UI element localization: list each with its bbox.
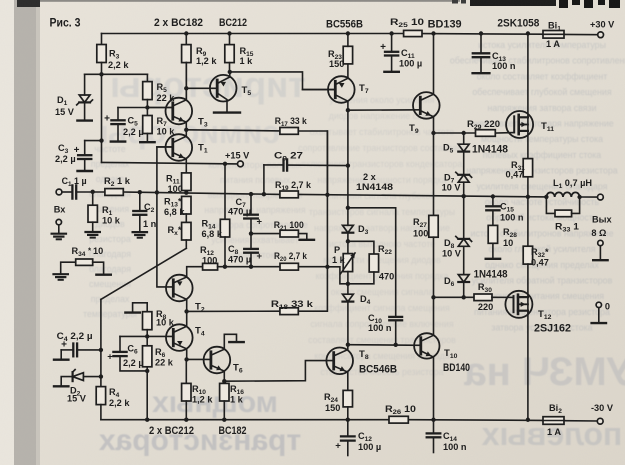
svg-text:УМЗЧ на: УМЗЧ на [464,350,625,394]
svg-text:10: 10 [503,238,513,248]
svg-text:2,2 µ: 2,2 µ [123,127,144,137]
svg-text:100 n: 100 n [368,323,392,333]
svg-text:1,2 k: 1,2 k [196,56,217,66]
svg-text:2,2 k: 2,2 k [108,60,129,70]
svg-text:1 k: 1 k [230,395,244,405]
svg-text:6,8 k: 6,8 k [164,207,185,217]
svg-text:-30 V: -30 V [591,403,614,413]
svg-text:истока усилителя температуры: истока усилителя температуры [478,40,606,50]
svg-text:BD139: BD139 [428,19,462,31]
svg-text:1 A: 1 A [546,39,560,49]
svg-text:100 µ: 100 µ [399,59,422,69]
svg-text:15 V: 15 V [67,394,87,404]
svg-text:около смещения сигнала: около смещения сигнала [331,287,434,297]
svg-text:включения питания смещения: включения питания смещения [480,291,604,301]
svg-text:мощных: мощных [152,386,278,419]
svg-text:сопротивление транзисторов сос: сопротивление транзисторов составляет [298,143,466,153]
svg-text:470 µ: 470 µ [228,255,251,265]
svg-text:+: + [257,217,263,228]
svg-text:2,2 µ: 2,2 µ [123,358,144,368]
svg-text:пределах: пределах [91,159,130,169]
svg-text:транзисторах: транзисторах [99,424,301,457]
svg-text:P: P [334,245,340,255]
svg-text:напряжение транзисторов резист: напряжение транзисторов резистора [466,166,617,176]
svg-text:150: 150 [329,59,344,69]
svg-text:включения транзисторов конденс: включения транзисторов конденсатора [302,159,463,169]
svg-text:напряжения затвора связи: напряжения затвора связи [488,103,597,113]
svg-text:+: + [380,42,386,53]
svg-text:Вх: Вх [54,205,67,215]
svg-text:0: 0 [605,302,610,312]
svg-text:2 x BC212: 2 x BC212 [149,425,194,437]
svg-text:6,8 k: 6,8 k [202,229,223,239]
svg-text:10 V: 10 V [442,249,462,259]
svg-text:напряжения напряжения: напряжения напряжения [204,205,305,215]
svg-text:BD140: BD140 [443,362,470,374]
svg-text:+: + [104,114,110,125]
svg-text:22 k: 22 k [155,358,174,368]
svg-text:150: 150 [325,403,340,413]
svg-text:BC556B: BC556B [326,19,363,31]
svg-text:15 V: 15 V [55,107,75,117]
svg-text:коэффициент сигнала смещения: коэффициент сигнала смещения [314,303,450,313]
svg-text:2,2 µ: 2,2 µ [55,154,76,164]
svg-text:+: + [257,251,263,262]
svg-text:+: + [335,441,341,452]
svg-text:470: 470 [379,272,394,282]
svg-text:8 Ω: 8 Ω [591,228,606,238]
svg-text:100 n: 100 n [500,213,524,223]
svg-text:1 A: 1 A [547,427,561,437]
svg-text:BC546B: BC546B [359,364,397,376]
svg-text:пределах: пределах [91,294,130,304]
svg-text:100: 100 [168,184,183,194]
svg-text:2 x: 2 x [363,172,377,182]
svg-text:+30 V: +30 V [590,20,615,30]
svg-text:0,47: 0,47 [531,258,549,268]
svg-text:1 n: 1 n [143,219,157,229]
svg-text:10 V: 10 V [442,183,462,193]
svg-text:около составляет коэффициент: около составляет коэффициент [477,71,608,81]
svg-text:10 k: 10 k [102,216,121,226]
svg-text:100 n: 100 n [492,61,516,71]
svg-text:0,47: 0,47 [506,170,524,180]
svg-text:100: 100 [202,256,217,266]
svg-text:10: 10 [93,246,103,256]
svg-text:100 n: 100 n [443,442,467,452]
svg-text:BC182: BC182 [219,425,247,437]
svg-text:470 µ: 470 µ [228,207,251,217]
svg-text:2SJ162: 2SJ162 [534,323,571,335]
svg-text:220: 220 [478,302,493,312]
svg-text:1N4148: 1N4148 [474,269,508,281]
svg-text:Вых: Вых [592,215,612,225]
svg-text:22 k: 22 k [157,93,176,103]
svg-text:1 k: 1 k [240,56,254,66]
svg-text:благодаря: благодаря [89,264,131,274]
svg-text:Рис. 3: Рис. 3 [50,16,81,30]
svg-text:2,2 k: 2,2 k [109,398,130,408]
svg-text:100 µ: 100 µ [358,442,381,452]
svg-text:обеспечивает глубокой смещения: обеспечивает глубокой смещения [472,87,611,97]
svg-text:смещения: смещения [89,279,131,289]
svg-text:+15 V: +15 V [225,151,250,161]
svg-text:2SK1058: 2SK1058 [497,18,539,30]
svg-text:2 x BC182: 2 x BC182 [154,17,203,29]
svg-text:10 k: 10 k [157,127,176,137]
svg-text:1 k: 1 k [332,255,346,265]
svg-text:1N4148: 1N4148 [472,144,508,156]
svg-text:1,2 k: 1,2 k [192,395,213,405]
svg-text:100: 100 [413,229,428,239]
svg-text:10 k: 10 k [156,318,175,328]
svg-text:тиристоры: тиристоры [110,64,306,105]
svg-text:1N4148: 1N4148 [356,182,393,192]
svg-text:BC212: BC212 [219,17,247,29]
svg-text:+: + [107,352,113,363]
svg-text:температуры: температуры [83,309,137,319]
